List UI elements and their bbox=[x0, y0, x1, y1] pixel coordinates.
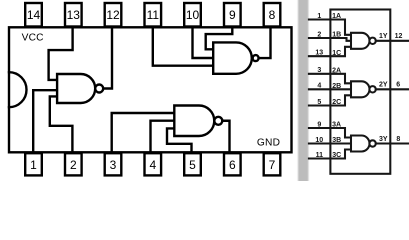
svg-text:1B: 1B bbox=[332, 32, 341, 39]
svg-text:2A: 2A bbox=[332, 68, 341, 75]
wire pin 13 to gate U1A input bbox=[49, 27, 73, 80]
gray divider bar bbox=[298, 0, 308, 183]
svg-text:3A: 3A bbox=[332, 122, 341, 129]
svg-text:3: 3 bbox=[110, 158, 117, 172]
svg-text:4: 4 bbox=[149, 158, 156, 172]
pin 13 (top pin box) bbox=[65, 3, 82, 27]
svg-text:6: 6 bbox=[396, 82, 400, 89]
wire pin 9 to gate U1C input bbox=[206, 27, 233, 49]
wire/node 2A input (pin 3) bbox=[309, 67, 351, 83]
svg-text:3C: 3C bbox=[332, 152, 341, 159]
wire/node 3B input (pin 10) bbox=[309, 137, 351, 144]
wire/node 1B input (pin 2) bbox=[309, 31, 351, 40]
svg-text:5: 5 bbox=[189, 158, 196, 172]
pin 3 (bottom pin box) bbox=[105, 153, 122, 175]
svg-text:14: 14 bbox=[27, 8, 41, 22]
svg-text:13: 13 bbox=[67, 8, 81, 22]
wire/node 3Y output to pin 8 bbox=[376, 136, 409, 144]
svg-text:8: 8 bbox=[396, 136, 400, 143]
svg-text:3B: 3B bbox=[332, 137, 341, 144]
pin 6 (bottom pin box) bbox=[224, 153, 241, 175]
wire pin 4 to gate U1B input bbox=[151, 121, 175, 153]
NAND gate (output 1Y) bbox=[351, 33, 376, 49]
svg-text:9: 9 bbox=[317, 121, 321, 128]
svg-text:1C: 1C bbox=[332, 50, 341, 57]
svg-text:2: 2 bbox=[317, 31, 321, 38]
svg-text:1: 1 bbox=[317, 13, 321, 20]
wire pin 2 to gate U1A input bbox=[50, 96, 73, 152]
svg-text:6: 6 bbox=[229, 158, 236, 172]
svg-text:11: 11 bbox=[316, 152, 324, 159]
pin 12 (top pin box) bbox=[105, 3, 122, 27]
wire pin 10 to gate U1C input bbox=[193, 27, 214, 58]
package outline (DIP-14 body) bbox=[9, 27, 292, 152]
pin 8 (top pin box) bbox=[264, 3, 281, 27]
wire pin 3 to gate U1B input bbox=[112, 113, 175, 152]
pin 10 (top pin box) bbox=[184, 3, 201, 27]
IC boundary box (logic diagram) bbox=[330, 10, 390, 174]
wire/node 1A input (pin 1) bbox=[309, 13, 351, 35]
wire/node 3C input (pin 11) bbox=[309, 150, 351, 160]
NAND gate U1B bbox=[174, 106, 222, 137]
svg-text:12: 12 bbox=[395, 33, 403, 40]
wire gate U1B output to pin 6 bbox=[222, 121, 229, 153]
wire gate U1C output to pin 8 bbox=[259, 27, 271, 58]
svg-text:9: 9 bbox=[229, 8, 236, 22]
pin 14 (top pin box) bbox=[25, 3, 42, 27]
svg-text:1A: 1A bbox=[332, 13, 341, 20]
svg-text:2B: 2B bbox=[332, 83, 341, 90]
svg-text:11: 11 bbox=[147, 8, 160, 22]
pin 1 (bottom pin box) bbox=[25, 153, 42, 175]
svg-text:1: 1 bbox=[30, 158, 37, 172]
wire/node 2Y output to pin 6 bbox=[376, 82, 409, 90]
wire pin 5 to gate U1B input bbox=[167, 128, 192, 152]
NAND gate U1A bbox=[57, 74, 103, 103]
svg-text:3: 3 bbox=[317, 67, 321, 74]
wire/node 3A input (pin 9) bbox=[309, 121, 351, 137]
wire/node 2C input (pin 5) bbox=[309, 95, 351, 106]
pin 7 (bottom pin box) bbox=[264, 153, 281, 175]
svg-text:2C: 2C bbox=[332, 99, 341, 106]
svg-text:10: 10 bbox=[186, 8, 200, 22]
svg-text:2: 2 bbox=[70, 158, 77, 172]
wire gate U1A output to pin 12 bbox=[103, 27, 112, 88]
wire pin 11 to gate U1C input bbox=[153, 27, 214, 65]
NAND gate (output 3Y) bbox=[351, 136, 376, 152]
svg-text:10: 10 bbox=[315, 137, 323, 144]
svg-text:3Y: 3Y bbox=[379, 136, 388, 143]
svg-text:7: 7 bbox=[269, 158, 276, 172]
NAND gate U1C bbox=[213, 42, 258, 73]
svg-text:12: 12 bbox=[106, 8, 120, 22]
svg-text:2Y: 2Y bbox=[379, 82, 388, 89]
svg-text:VCC: VCC bbox=[22, 32, 44, 43]
svg-text:GND: GND bbox=[257, 138, 280, 149]
pin 2 (bottom pin box) bbox=[65, 153, 82, 175]
wire/node 1Y output to pin 12 bbox=[376, 33, 409, 41]
svg-text:13: 13 bbox=[315, 50, 323, 57]
wire/node 1C input (pin 13) bbox=[309, 47, 351, 57]
wire pin 1 to gate U1A input bbox=[33, 90, 57, 152]
wire/node 2B input (pin 4) bbox=[309, 83, 351, 90]
svg-text:1Y: 1Y bbox=[379, 33, 388, 40]
pin 9 (top pin box) bbox=[224, 3, 241, 27]
svg-text:8: 8 bbox=[269, 8, 276, 22]
NAND gate (output 2Y) bbox=[351, 81, 376, 97]
pin 5 (bottom pin box) bbox=[184, 153, 201, 175]
pin-1 end notch (index semicircle) bbox=[9, 72, 27, 107]
pin 4 (bottom pin box) bbox=[145, 153, 162, 175]
svg-text:5: 5 bbox=[317, 99, 321, 106]
svg-text:4: 4 bbox=[317, 83, 321, 90]
pin 11 (top pin box) bbox=[145, 3, 162, 27]
